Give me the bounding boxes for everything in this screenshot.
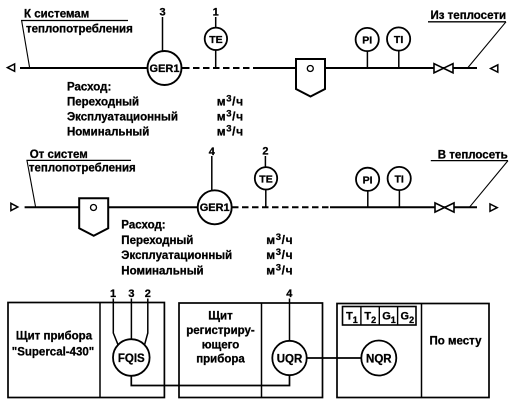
svg-text:1: 1 (213, 7, 219, 19)
svg-text:регистриру-: регистриру- (186, 325, 255, 337)
svg-text:Щит прибора: Щит прибора (16, 331, 93, 343)
svg-text:TI: TI (395, 174, 404, 186)
svg-text:TI: TI (394, 34, 403, 46)
svg-text:м3/ч: м3/ч (266, 232, 293, 247)
svg-text:"Supercal-430": "Supercal-430" (12, 347, 95, 359)
svg-text:В теплосеть: В теплосеть (438, 149, 508, 161)
svg-text:Номинальный: Номинальный (67, 126, 149, 138)
svg-text:3: 3 (128, 288, 134, 300)
svg-text:прибора: прибора (196, 354, 245, 366)
svg-text:1: 1 (110, 288, 116, 300)
svg-text:2: 2 (262, 146, 268, 158)
svg-text:От систем: От систем (30, 149, 88, 161)
svg-text:TE: TE (259, 173, 272, 185)
svg-text:Эксплуатационный: Эксплуатационный (67, 111, 178, 123)
svg-text:К системам: К системам (24, 9, 89, 21)
svg-text:м3/ч: м3/ч (217, 94, 244, 109)
svg-text:T2: T2 (364, 311, 376, 326)
svg-text:ющего: ющего (202, 340, 240, 352)
svg-text:По месту: По месту (430, 336, 483, 348)
svg-text:GER1: GER1 (150, 63, 180, 75)
svg-text:NQR: NQR (366, 353, 392, 365)
svg-text:2: 2 (145, 288, 151, 300)
svg-text:м3/ч: м3/ч (266, 247, 293, 262)
svg-text:UQR: UQR (277, 353, 303, 365)
svg-text:GER1: GER1 (200, 202, 230, 214)
svg-text:Переходный: Переходный (121, 235, 193, 247)
svg-text:Номинальный: Номинальный (121, 265, 203, 277)
svg-text:м3/ч: м3/ч (217, 124, 244, 139)
svg-text:PI: PI (362, 35, 372, 47)
svg-text:Расход:: Расход: (67, 82, 111, 94)
svg-text:теплопотребления: теплопотребления (26, 24, 133, 36)
svg-text:Расход:: Расход: (121, 220, 165, 232)
svg-text:FQIS: FQIS (118, 353, 145, 365)
svg-text:G2: G2 (401, 311, 415, 326)
svg-text:TE: TE (209, 34, 222, 46)
svg-text:теплопотребления: теплопотребления (29, 162, 136, 174)
svg-text:3: 3 (159, 7, 165, 19)
svg-text:Из теплосети: Из теплосети (431, 10, 507, 22)
svg-text:4: 4 (286, 288, 293, 300)
svg-text:PI: PI (363, 174, 373, 186)
svg-text:м3/ч: м3/ч (266, 263, 293, 278)
svg-text:Щит: Щит (208, 311, 233, 323)
svg-text:Эксплуатационный: Эксплуатационный (121, 250, 232, 262)
svg-text:Переходный: Переходный (67, 96, 139, 108)
svg-text:G1: G1 (382, 311, 396, 326)
svg-text:м3/ч: м3/ч (217, 109, 244, 124)
svg-text:T1: T1 (346, 311, 358, 326)
